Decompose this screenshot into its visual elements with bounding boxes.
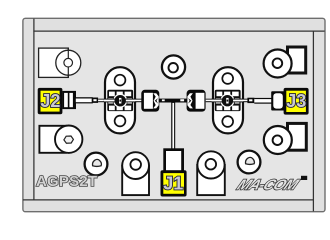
svg-text:MA-COM: MA-COM (234, 177, 302, 193)
via pad mid-right (238, 151, 261, 174)
component C2 left coupling cap (141, 90, 159, 112)
mounting pad bottom-left (39, 126, 82, 153)
connector J3 label (284, 88, 309, 115)
svg-text:AGPS2T: AGPS2T (36, 173, 97, 190)
wire junction segment (159, 99, 188, 103)
logo TM mark (301, 176, 307, 180)
filter FL1 left (107, 90, 133, 111)
wire bead to left filter (98, 99, 105, 103)
svg-text:J2: J2 (40, 91, 60, 111)
hole left obround top (115, 75, 126, 86)
filter FL1 center element (115, 95, 126, 106)
component C3 right coupling cap (187, 90, 206, 112)
pad obround left (105, 67, 135, 133)
wire across right obround (212, 99, 244, 103)
wire obround to right bead (243, 99, 248, 103)
wire C3 to right obround (206, 99, 214, 103)
via pad mid-left (85, 153, 108, 176)
mounting pad top-right (264, 47, 306, 78)
wire across left obround (104, 99, 136, 103)
board edge bottom rail (23, 199, 314, 201)
mounting pad top-left (39, 48, 81, 77)
standoff bottom-center-left (122, 152, 149, 195)
hole right obround top (222, 73, 233, 84)
board edge right rail (312, 31, 314, 212)
wire obround to C2 (135, 99, 142, 103)
hole right obround bottom (222, 116, 233, 127)
pad obround right (213, 67, 243, 133)
component C1 bead on J2 line (92, 98, 98, 103)
connector J3 body (271, 91, 285, 110)
wire vertical to J1 (171, 100, 175, 150)
filter FL2 center element (222, 95, 233, 106)
mounting pad bottom-right (264, 123, 307, 154)
board edge left rail (33, 19, 35, 200)
connector J2 label (38, 88, 63, 114)
svg-text:J3: J3 (286, 91, 306, 111)
board outer frame (23, 18, 325, 211)
wire J3 feedline thick (254, 98, 272, 104)
standoff bottom-center-right (197, 151, 225, 195)
board inner area (34, 31, 313, 200)
connector J2 body (62, 91, 76, 109)
filter FL2 right (215, 90, 241, 111)
connector J1 body (163, 148, 184, 171)
svg-text:J1: J1 (163, 174, 183, 194)
connector J1 label (161, 170, 187, 196)
logo MA-COM (234, 177, 302, 193)
via pad top-center (162, 55, 185, 78)
component C4 bead on J3 line (247, 98, 254, 103)
hole left obround bottom (115, 116, 126, 127)
wire J2 feedline thick (76, 97, 93, 103)
board edge top rail (33, 30, 324, 32)
